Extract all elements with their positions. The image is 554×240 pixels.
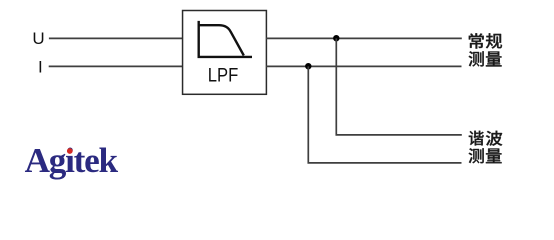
label liang (measure, top) — [486, 52, 502, 67]
wire U input — [49, 37, 183, 39]
Agitek logo red i-dot — [67, 148, 73, 154]
LPF response axes — [199, 21, 252, 57]
wire from U junction down and right to harmonic measurement — [336, 38, 462, 135]
label gui (normal) — [486, 33, 502, 48]
label xie (harmonic) — [469, 131, 484, 146]
wire U output to normal measurement — [266, 37, 462, 39]
wire I input — [49, 65, 183, 67]
LPF block U1 box — [183, 11, 267, 95]
svg-text:I: I — [38, 58, 43, 77]
label chang (normal) — [469, 33, 484, 48]
svg-text:LPF: LPF — [208, 65, 239, 87]
wire from I junction down and right to harmonic measurement — [308, 66, 461, 163]
label bo (harmonic) — [486, 131, 502, 146]
label ce (measure, top) — [469, 51, 484, 66]
LPF response curve — [199, 25, 244, 55]
wire I output to normal measurement — [266, 65, 462, 67]
svg-text:U: U — [32, 29, 44, 48]
svg-text:Agitek: Agitek — [25, 141, 119, 180]
junction node on U output — [333, 35, 339, 41]
label ce (measure, bottom) — [469, 148, 484, 163]
junction node on I output — [305, 63, 311, 69]
label liang (measure, bottom) — [486, 148, 502, 163]
